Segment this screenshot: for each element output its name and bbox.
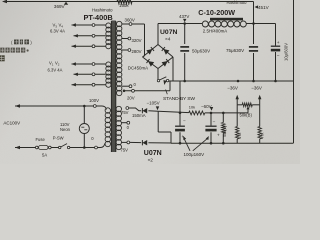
svg-text:Fuse: Fuse [36, 137, 46, 142]
svg-text:C-10-200W: C-10-200W [198, 8, 235, 17]
svg-text:75μ630V: 75μ630V [226, 48, 244, 53]
svg-text:−: − [213, 119, 216, 124]
svg-text:PT-400B: PT-400B [84, 13, 113, 22]
svg-text:280V: 280V [132, 49, 142, 54]
svg-text:10k: 10k [189, 105, 195, 110]
svg-text:20V: 20V [127, 95, 135, 100]
svg-text:Hashimoto: Hashimoto [92, 8, 113, 13]
svg-text:×2: ×2 [148, 158, 154, 164]
svg-text:P-SW: P-SW [53, 136, 64, 141]
svg-text:+: + [217, 133, 220, 138]
svg-text:−105V: −105V [147, 100, 160, 105]
svg-text:U07N: U07N [160, 29, 177, 36]
svg-text:5A: 5A [42, 152, 47, 157]
svg-text:150mA: 150mA [132, 113, 146, 118]
svg-text:−60V: −60V [201, 104, 212, 109]
svg-text:10μ/600V: 10μ/600V [284, 43, 289, 61]
svg-text:437V: 437V [179, 14, 189, 19]
svg-text:320V: 320V [132, 38, 142, 43]
svg-text:Hashimoto: Hashimoto [227, 0, 248, 5]
svg-text:360V: 360V [125, 18, 135, 23]
svg-text:−: − [277, 55, 280, 60]
svg-text:369V: 369V [54, 4, 66, 9]
svg-text:−36V: −36V [227, 85, 238, 90]
svg-text:50k(B): 50k(B) [222, 125, 227, 137]
svg-text:75V: 75V [121, 110, 129, 115]
svg-text:150k: 150k [119, 3, 129, 8]
svg-text:U07N: U07N [144, 150, 162, 157]
svg-text:6.3V 4A: 6.3V 4A [50, 29, 65, 34]
svg-text:100μ160V: 100μ160V [184, 152, 205, 157]
svg-text:DC450mA: DC450mA [128, 65, 148, 70]
svg-text:100V: 100V [89, 98, 99, 103]
svg-text:50μ630V: 50μ630V [192, 49, 210, 54]
svg-text:47k: 47k [237, 133, 242, 139]
svg-text:2.5H/400mA: 2.5H/400mA [203, 28, 227, 33]
svg-text:−: − [183, 118, 186, 123]
svg-text:47k: 47k [260, 133, 265, 139]
svg-text:451V: 451V [258, 5, 270, 10]
svg-text:+: + [277, 41, 280, 46]
svg-text:STAND-BY SW: STAND-BY SW [163, 96, 195, 102]
svg-text:Neon: Neon [60, 127, 71, 132]
svg-text:6.3V 4A: 6.3V 4A [48, 68, 63, 73]
svg-text:AC100V: AC100V [3, 120, 20, 125]
svg-text:−36V: −36V [251, 85, 262, 90]
svg-text:×4: ×4 [165, 36, 171, 42]
